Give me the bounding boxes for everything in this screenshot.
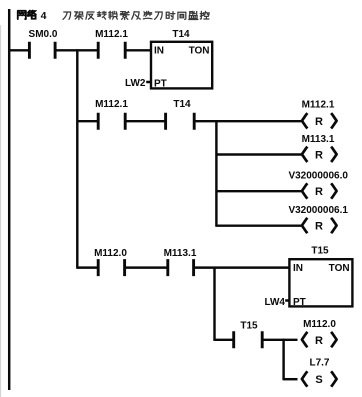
svg-text:PT: PT [154,79,167,90]
svg-text:4: 4 [41,10,47,22]
svg-text:IN: IN [154,45,164,56]
svg-text:R: R [315,116,323,128]
svg-text:T15: T15 [311,245,329,256]
svg-text:T15: T15 [240,321,258,332]
svg-text:L7.7: L7.7 [309,358,329,369]
svg-text:M112.1: M112.1 [95,29,128,40]
svg-text:M113.1: M113.1 [164,248,197,259]
svg-text:M112.1: M112.1 [302,99,335,110]
svg-text:TON: TON [329,263,350,274]
svg-text:S: S [315,374,322,386]
svg-text:R: R [315,186,323,198]
svg-text:M112.0: M112.0 [303,319,336,330]
svg-text:T14: T14 [172,29,190,40]
svg-text:M112.0: M112.0 [94,248,127,259]
svg-text:R: R [315,150,323,162]
svg-text:LW2: LW2 [125,78,146,89]
svg-text:R: R [315,335,323,347]
svg-text:LW4: LW4 [264,297,285,308]
svg-text:TON: TON [189,45,210,56]
svg-text:SM0.0: SM0.0 [29,29,58,40]
svg-text:V32000006.0: V32000006.0 [288,171,348,182]
svg-text:M112.1: M112.1 [95,99,128,110]
svg-text:T14: T14 [173,99,191,110]
svg-text:M113.1: M113.1 [302,134,335,145]
svg-text:PT: PT [293,297,306,308]
svg-text:V32000006.1: V32000006.1 [288,205,348,216]
svg-text:IN: IN [293,263,303,274]
svg-text:R: R [315,221,323,233]
